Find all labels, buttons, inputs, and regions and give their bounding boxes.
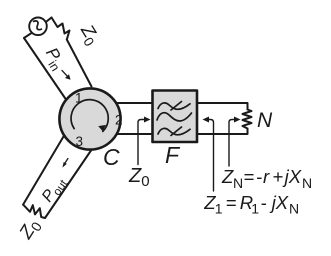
wire: input line upper conductor (67, 40, 92, 87)
wire: source to series resistor corner (46, 18, 52, 23)
wire: source lower stub (24, 33, 32, 38)
resistor Z0 (series source impedance) (52, 18, 70, 40)
filter wave top (crossed) (158, 102, 190, 111)
svg-text:1: 1 (75, 91, 83, 106)
label Z0 (bottom annotation) (128, 165, 150, 190)
wire: input line lower conductor (24, 38, 66, 100)
circulator C body (59, 88, 120, 149)
wire: circulator port2 to filter, upper (116, 102, 152, 104)
label P_in (rotated) (39, 44, 69, 74)
label P_out (rotated) (39, 173, 71, 207)
annotation arrow Z0 (into filter input) (138, 117, 151, 165)
svg-text:3: 3 (76, 134, 84, 149)
wire: filter to load, upper (197, 103, 248, 110)
arrow: P_in direction (62, 70, 71, 79)
svg-text:F: F (165, 142, 181, 168)
svg-text:2: 2 (115, 113, 123, 128)
annotation arrow Z1 (into filter output, pointing left) (203, 117, 214, 192)
svg-text:Z0: Z0 (14, 215, 45, 245)
wire: circulator port2 to filter, lower (117, 133, 152, 135)
label N (257, 109, 273, 132)
wire: filter to load, lower (197, 129, 248, 135)
annotation arrow ZN (into load N, pointing right) (229, 117, 241, 167)
AC source (oscillator) (29, 18, 47, 36)
svg-text:N: N (257, 109, 273, 132)
resistor Z0 (termination across line end) (23, 205, 45, 218)
equation ZN = -r + jXN (221, 166, 312, 191)
arrow: P_out direction (62, 159, 68, 168)
circulator rotation arrow (71, 100, 108, 132)
port 3 label (76, 134, 84, 149)
svg-text:Pin: Pin (39, 44, 69, 74)
svg-text:Z0: Z0 (74, 20, 104, 49)
resistor N zigzag (243, 110, 252, 129)
label Z0 (input line, rotated) (74, 20, 104, 49)
label F (165, 142, 181, 168)
filter F box (153, 91, 198, 143)
svg-text:Z0: Z0 (128, 165, 150, 190)
port 2 label (115, 113, 123, 128)
label C (103, 144, 120, 170)
label Z0 (output termination, rotated) (14, 215, 45, 245)
svg-text:ZN=-r+jXN: ZN=-r+jXN (221, 166, 312, 191)
wire: output line left conductor (23, 137, 63, 205)
equation Z1 = R1 - jXN (203, 192, 299, 217)
filter wave bottom (crossed) (158, 127, 190, 136)
port 1 label (75, 91, 83, 106)
svg-text:C: C (103, 144, 120, 170)
filter wave middle (157, 113, 192, 121)
wire: output line right conductor (45, 151, 91, 219)
svg-text:Z1=R1-jXN: Z1=R1-jXN (203, 192, 299, 217)
svg-text:Pout: Pout (39, 173, 71, 207)
